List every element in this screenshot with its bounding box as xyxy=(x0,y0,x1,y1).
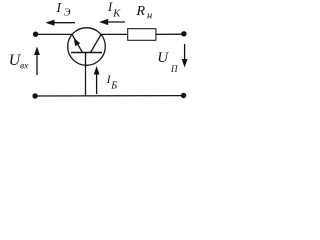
svg-text:н: н xyxy=(147,11,152,22)
svg-text:Б: Б xyxy=(110,80,117,91)
svg-text:U: U xyxy=(157,50,169,66)
svg-text:I: I xyxy=(107,0,113,14)
svg-text:П: П xyxy=(170,64,178,74)
svg-text:вх: вх xyxy=(20,61,29,71)
svg-text:Э: Э xyxy=(64,8,71,19)
svg-text:R: R xyxy=(136,4,146,19)
svg-text:К: К xyxy=(112,8,121,19)
